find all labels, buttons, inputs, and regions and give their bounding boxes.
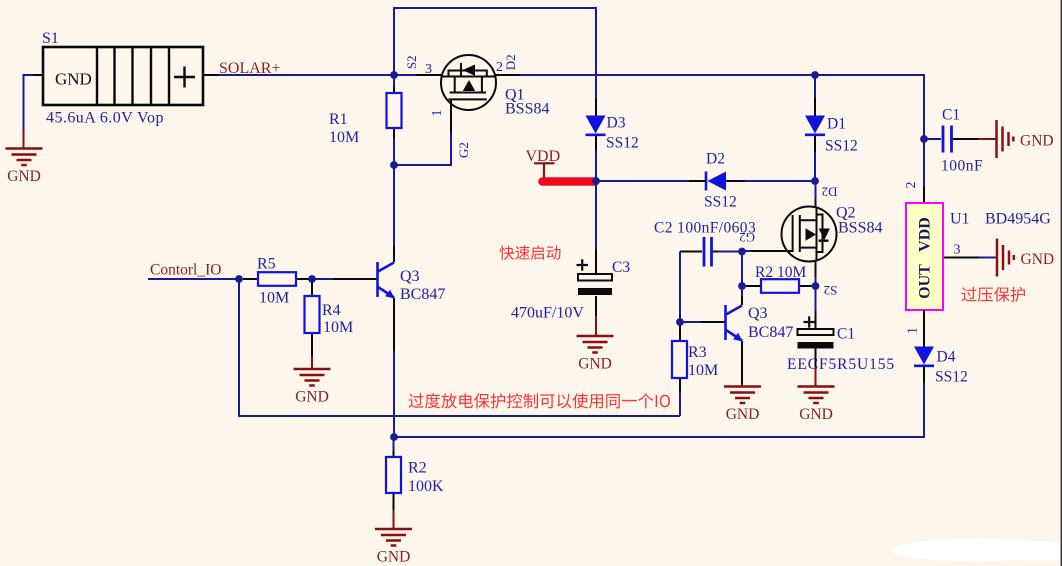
svg-text:470uF/10V: 470uF/10V — [511, 305, 584, 322]
capacitor C2 100nF/0603 — [654, 220, 756, 323]
annotation 快速启动 — [499, 245, 560, 259]
wire top loop — [394, 8, 596, 99]
svg-text:BC847: BC847 — [748, 324, 793, 341]
svg-text:R2: R2 — [408, 460, 427, 477]
svg-text:10M: 10M — [323, 319, 353, 336]
diode D2 SS12 — [596, 151, 815, 211]
svg-text:G2: G2 — [456, 142, 471, 158]
svg-text:1: 1 — [906, 327, 921, 334]
svg-text:S2: S2 — [824, 283, 838, 298]
svg-text:1: 1 — [430, 110, 445, 117]
svg-text:R2 10M: R2 10M — [755, 264, 806, 281]
svg-text:D2: D2 — [706, 151, 725, 168]
svg-text:BC847: BC847 — [400, 286, 445, 303]
svg-text:C3: C3 — [612, 259, 630, 276]
svg-text:SS12: SS12 — [825, 138, 858, 155]
svg-text:GND: GND — [1020, 133, 1054, 150]
svg-text:D1: D1 — [827, 116, 846, 133]
svg-text:2: 2 — [904, 182, 919, 189]
annotation 过度放电保护控制可以使用同一个IO — [409, 393, 670, 408]
IC U1 BD4954G — [904, 139, 1051, 347]
image right edge border — [1060, 0, 1062, 566]
svg-text:D2: D2 — [822, 185, 838, 200]
ground GND (U1 pin3, sideways) — [997, 239, 1014, 277]
ground GND (C3) — [577, 336, 614, 353]
transistor Q1 BSS84 (PMOS) — [394, 54, 549, 165]
svg-text:D2: D2 — [503, 54, 518, 70]
svg-text:BSS84: BSS84 — [838, 220, 882, 237]
transistor Q2 BSS84 (PMOS, rotated) — [739, 181, 882, 298]
net label Contorl_IO — [148, 262, 239, 280]
svg-text:Q3: Q3 — [748, 305, 768, 322]
svg-text:10M: 10M — [688, 362, 718, 379]
svg-text:BD4954G: BD4954G — [985, 211, 1051, 228]
ground GND (R4) — [294, 369, 331, 386]
svg-text:BSS84: BSS84 — [505, 101, 549, 118]
svg-text:10M: 10M — [329, 129, 359, 146]
svg-text:GND: GND — [377, 549, 411, 566]
svg-text:GND: GND — [578, 356, 612, 373]
svg-text:D3: D3 — [607, 115, 626, 132]
svg-text:U1: U1 — [950, 211, 970, 228]
diode D3 SS12 — [586, 98, 639, 181]
svg-text:45.6uA 6.0V Vop: 45.6uA 6.0V Vop — [46, 110, 164, 127]
power flag VDD — [526, 148, 561, 179]
battery S1 — [42, 30, 203, 127]
svg-text:R3: R3 — [688, 344, 707, 361]
svg-text:GND: GND — [726, 406, 760, 423]
svg-text:SS12: SS12 — [704, 194, 737, 211]
svg-text:C2 100nF/0603: C2 100nF/0603 — [654, 220, 756, 237]
svg-text:GND: GND — [7, 168, 41, 185]
svg-text:D4: D4 — [937, 349, 956, 366]
svg-text:2: 2 — [496, 60, 503, 75]
svg-text:10M: 10M — [259, 290, 289, 307]
capacitor C1 100nF — [924, 107, 996, 175]
diode D1 SS12 — [805, 75, 858, 181]
svg-text:Q3: Q3 — [400, 268, 420, 285]
ground GND (C1, sideways) — [997, 120, 1014, 158]
svg-text:Contorl_IO: Contorl_IO — [150, 262, 221, 279]
transistor Q3 BC847 (left) — [312, 165, 445, 437]
wire left loop to bottom — [239, 279, 680, 416]
ground GND (Q3 right) — [724, 387, 761, 404]
annotation 过压保护 — [962, 287, 1025, 302]
resistor R2 10M — [742, 264, 816, 293]
svg-text:SS12: SS12 — [935, 369, 968, 386]
svg-text:OUT: OUT — [917, 264, 934, 299]
svg-text:R1: R1 — [329, 111, 348, 128]
svg-text:GND: GND — [295, 389, 329, 406]
resistor R5 10M — [243, 256, 312, 307]
svg-text:GND: GND — [799, 406, 833, 423]
resistor R4 10M — [305, 279, 354, 369]
resistor R3 10M — [672, 322, 718, 416]
svg-text:100nF: 100nF — [941, 158, 983, 175]
svg-text:GND: GND — [55, 70, 92, 89]
wire bottom horizontal (to D4 leg) — [394, 382, 924, 437]
svg-text:C1: C1 — [837, 326, 855, 343]
svg-text:S2: S2 — [404, 55, 419, 69]
wire SOLAR+ main horizontal — [219, 75, 924, 139]
svg-text:3: 3 — [425, 62, 432, 77]
svg-text:EECF5R5U155: EECF5R5U155 — [787, 356, 895, 373]
ground GND (R2 100K) — [375, 529, 412, 546]
watermark smudge — [892, 539, 1062, 562]
svg-text:3: 3 — [954, 243, 961, 258]
svg-text:SS12: SS12 — [606, 135, 639, 152]
svg-text:GND: GND — [1021, 251, 1055, 268]
diode D4 SS12 — [914, 310, 968, 386]
ground GND (C1 electrolytic) — [798, 387, 835, 404]
resistor R2 100K — [386, 437, 444, 529]
svg-text:VDD: VDD — [917, 217, 934, 252]
svg-text:S1: S1 — [42, 30, 59, 47]
svg-text:100K: 100K — [408, 478, 444, 495]
wire battery left pin — [32, 74, 43, 76]
capacitor C1 EECF5R5U155 (electrolytic) — [787, 286, 895, 387]
wire to left ground — [24, 75, 34, 131]
resistor R1 — [329, 75, 402, 165]
svg-text:C1: C1 — [942, 107, 960, 124]
svg-text:R4: R4 — [322, 302, 341, 319]
svg-text:R5: R5 — [257, 256, 276, 273]
transistor Q3 BC847 (right) — [680, 286, 793, 387]
ground GND (battery) — [6, 149, 43, 166]
wire VDD highlighted (thick red) — [543, 177, 596, 186]
wire battery right pin — [203, 74, 219, 76]
capacitor C3 470uF/10V (electrolytic) — [511, 181, 630, 336]
